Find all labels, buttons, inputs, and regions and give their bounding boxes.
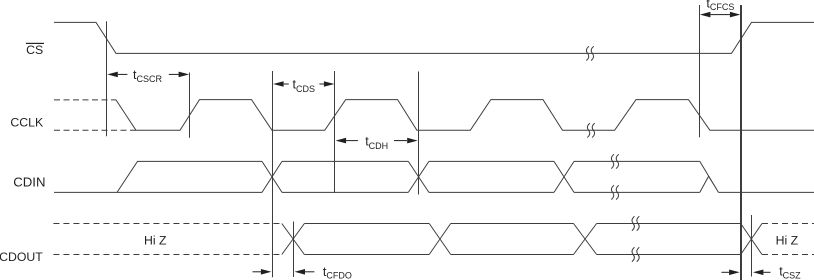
svg-text:CCLK: CCLK	[10, 116, 44, 130]
node CDOUT crossover X2	[429, 224, 451, 255]
wire CDOUT HiZ dashed bottom left	[53, 254, 281, 256]
wire CDOUT bus segment 2	[451, 224, 574, 255]
break symbol on CCLK low line	[587, 123, 594, 137]
wire CDOUT HiZ dashed top left	[53, 223, 281, 225]
dimension arrow t_CDH left	[336, 138, 347, 144]
svg-text:CDOUT: CDOUT	[0, 250, 43, 264]
node CDIN closing transition	[700, 161, 719, 192]
dimension arrow t_CFDO left-pointing	[295, 269, 306, 275]
svg-text:CS: CS	[26, 43, 43, 57]
wire CDIN bus segment 3	[429, 161, 554, 192]
wire CDOUT HiZ dashed top right	[762, 223, 814, 225]
break symbol on CDOUT bus bottom line	[632, 247, 639, 261]
dimension arrow t_CFDO right-pointing	[253, 271, 262, 272]
dimension arrow t_CDS right	[319, 84, 324, 85]
wire CCLK dashed high reference	[54, 99, 116, 101]
node marker line L5 (CCLK fall / data change)	[418, 72, 420, 195]
node marker line L2 (CCLK rising edge 1)	[189, 73, 191, 138]
dimension arrow t_CDH right	[394, 140, 407, 141]
node CDIN crossover X3	[554, 161, 574, 192]
break symbol on CS low line	[586, 46, 593, 60]
node CDOUT crossover X1	[282, 224, 305, 255]
wire CCLK dashed low reference	[54, 129, 136, 131]
node marker line L7 (CS rising edge)	[740, 5, 742, 280]
node CDIN crossover X1	[262, 161, 282, 192]
wire CS waveform	[54, 22, 814, 53]
node marker line L8 (CDOUT X1 center)	[293, 222, 295, 278]
wire CDOUT bus segment 1	[304, 224, 429, 255]
node marker line L6 (CCLK falling edge last)	[699, 5, 701, 137]
svg-text:tCSZ: tCSZ	[779, 265, 801, 280]
node marker line L1 (CS falling edge)	[106, 21, 108, 136]
wire CDOUT bus segment 3	[597, 224, 741, 255]
dimension arrow t_CSZ right-pointing	[721, 272, 729, 273]
svg-text:tCSCR: tCSCR	[133, 68, 162, 84]
wire CDIN trailing low	[719, 191, 814, 193]
node marker line L3 (data change / CCLK fall)	[272, 71, 274, 277]
svg-text:tCFCS: tCFCS	[706, 0, 734, 12]
svg-text:tCFDO: tCFDO	[323, 265, 352, 280]
node CDIN crossover X2	[408, 161, 429, 192]
wire CDIN bus bottom	[117, 191, 262, 193]
overline for CS	[26, 43, 44, 44]
wire CDIN bus top	[117, 161, 262, 192]
break symbol on CDIN bus top line	[611, 154, 618, 168]
svg-text:Hi Z: Hi Z	[776, 234, 799, 248]
wire CCLK waveform	[116, 100, 814, 131]
wire CDIN bus segment 2	[282, 161, 408, 192]
svg-text:tCDH: tCDH	[365, 134, 388, 151]
break symbol on CDIN bus bottom line	[611, 185, 618, 199]
svg-text:Hi Z: Hi Z	[144, 234, 167, 248]
wire CDIN lead-in low	[54, 191, 117, 193]
wire CDIN bus segment 4	[574, 161, 700, 192]
node marker line L9 (CDOUT X4 center)	[751, 215, 753, 277]
wire CDOUT HiZ dashed bottom right	[762, 254, 814, 256]
dimension arrow t_CSZ left-pointing	[753, 270, 764, 276]
node marker line L4 (CCLK rising edge 2)	[334, 71, 336, 193]
dimension arrow t_CSCR left	[107, 72, 118, 78]
node CDOUT crossover X3	[574, 224, 597, 255]
node CDOUT crossover X4	[741, 224, 762, 255]
break symbol on CDOUT bus top line	[632, 216, 639, 230]
svg-text:tCDS: tCDS	[293, 78, 316, 95]
dimension arrow t_CFCS double-headed	[700, 12, 711, 18]
dimension arrow t_CDS left	[273, 81, 284, 87]
svg-text:CDIN: CDIN	[13, 175, 45, 190]
dimension arrow t_CSCR right	[169, 74, 179, 75]
